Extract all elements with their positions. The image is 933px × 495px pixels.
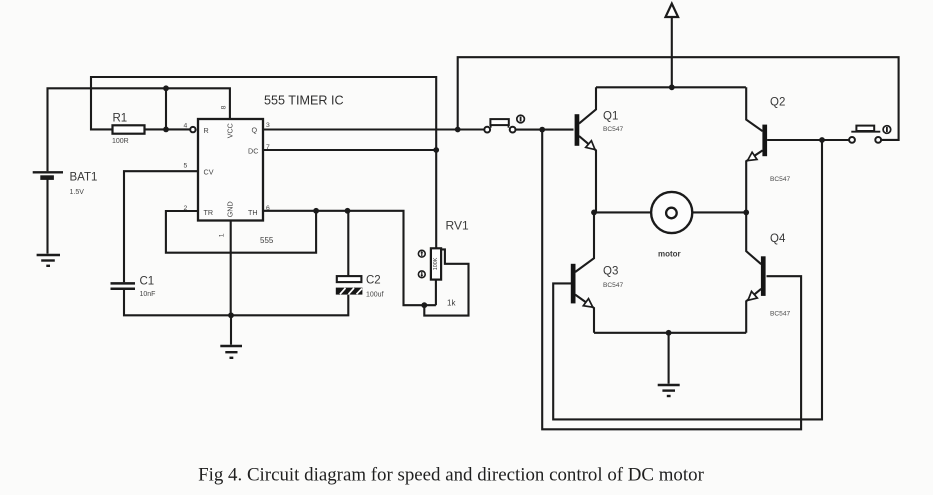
wire R1 left lead up and over to RV1 top xyxy=(91,77,436,249)
button S1 right terminal xyxy=(510,127,516,133)
pin label TH xyxy=(248,208,258,217)
svg-text:1: 1 xyxy=(219,233,226,237)
svg-text:Q: Q xyxy=(252,126,258,135)
svg-text:motor: motor xyxy=(658,250,681,259)
svg-text:RV1: RV1 xyxy=(446,219,469,233)
svg-text:BC547: BC547 xyxy=(770,176,790,183)
wire pin 7 DC to RV1 node xyxy=(263,149,436,151)
caption Fig 4 xyxy=(198,465,704,486)
svg-text:5: 5 xyxy=(184,163,188,170)
RV1 decrement control circle xyxy=(418,271,425,278)
svg-text:BC547: BC547 xyxy=(603,282,623,289)
pin number 7 xyxy=(266,144,270,151)
label Q4 xyxy=(770,233,786,245)
wire S1 node down and around to Q4 base xyxy=(542,130,801,430)
wire battery - to ground xyxy=(46,179,48,254)
label Q1 xyxy=(603,111,618,123)
power supply arrow xyxy=(666,4,679,88)
RV1 increment control circle xyxy=(418,250,425,257)
junction DC node on RV1 wire xyxy=(433,147,439,153)
label Q2 xyxy=(770,97,785,109)
wire pin 6 TH to RV1 bottom xyxy=(263,211,436,305)
value BC547 Q4 xyxy=(770,311,790,318)
junction Q output node xyxy=(455,127,461,133)
svg-text:100R: 100R xyxy=(112,138,129,145)
label motor xyxy=(658,250,681,259)
transistor Q2 xyxy=(746,87,767,212)
pin label DC xyxy=(248,147,258,156)
wire RV1 wiper loop to bottom node xyxy=(424,249,468,315)
ground under 555 xyxy=(220,315,242,358)
wire pin 3 Q output to button S1 xyxy=(263,128,484,130)
value BC547 Q3 xyxy=(603,282,623,289)
svg-text:1.5V: 1.5V xyxy=(70,189,85,196)
label 555 below box xyxy=(260,236,274,245)
button S2 cap xyxy=(851,126,880,132)
junction TH node at C2 xyxy=(345,208,351,214)
wire button S1 to Q1 base xyxy=(516,129,574,131)
pin label TR xyxy=(204,208,214,217)
pin number 2 xyxy=(184,205,188,212)
button S1 actuate symbol xyxy=(517,115,525,123)
svg-text:Q2: Q2 xyxy=(770,97,785,109)
svg-text:C2: C2 xyxy=(366,275,381,287)
value BC547 Q1 xyxy=(603,126,623,133)
svg-text:8: 8 xyxy=(221,105,228,109)
pin number 1 xyxy=(219,233,226,237)
svg-text:BAT1: BAT1 xyxy=(70,172,98,184)
capacitor C1 xyxy=(111,283,136,288)
value 1.5V xyxy=(70,189,85,196)
button S2 actuate symbol xyxy=(883,126,891,134)
svg-text:Fig 4. Circuit diagram for spe: Fig 4. Circuit diagram for speed and dir… xyxy=(198,465,704,486)
wire R1 right lead to pin 4 xyxy=(145,128,190,130)
battery BAT1 xyxy=(33,172,63,177)
potentiometer RV1 body xyxy=(431,248,441,279)
button S1 left terminal xyxy=(484,127,490,133)
svg-text:Q4: Q4 xyxy=(770,233,786,245)
wire Q3 Q4 emitter rail xyxy=(594,332,746,334)
wire C1 bottom along ground rail to C2 bottom xyxy=(124,290,348,315)
junction collector rail center xyxy=(669,84,675,90)
wire TH node down to C2 xyxy=(347,211,349,276)
svg-text:DC: DC xyxy=(248,147,258,156)
svg-text:TR: TR xyxy=(204,208,214,217)
button S1 cap xyxy=(490,119,508,128)
transistor Q3 xyxy=(571,212,594,332)
pin number 6 xyxy=(266,205,270,212)
junction emitter rail center xyxy=(666,330,672,336)
junction S1 output node xyxy=(539,127,545,133)
junction RV1 bottom node xyxy=(421,302,427,308)
junction Q1 Q3 node xyxy=(591,210,597,216)
label C2 xyxy=(366,275,381,287)
label Q3 xyxy=(603,266,618,278)
pin number 4 xyxy=(184,123,188,130)
svg-text:4: 4 xyxy=(184,123,188,130)
wire RV1 bottom lead xyxy=(435,280,437,306)
wire emitter rail to ground xyxy=(668,333,670,384)
label BAT1 xyxy=(70,172,98,184)
label R1 xyxy=(113,113,128,125)
wire supply branch to button S2 xyxy=(458,57,899,140)
transistor Q4 xyxy=(746,212,765,332)
pin label R xyxy=(204,126,209,135)
value 1k xyxy=(447,299,456,308)
ground under battery xyxy=(37,255,60,266)
button S2 left terminal xyxy=(849,137,855,143)
ground under bridge xyxy=(658,385,680,396)
transistor Q1 xyxy=(575,87,596,212)
pin 4 inversion bubble xyxy=(190,127,195,132)
svg-text:GND: GND xyxy=(226,201,235,217)
pin label CV xyxy=(204,167,214,176)
value 100uf xyxy=(366,292,384,299)
svg-text:Q1: Q1 xyxy=(603,111,618,123)
wire motor left to Q1 Q3 node xyxy=(594,211,651,213)
junction TR loop at TH wire xyxy=(313,208,319,214)
wire Q2 base to button S2 xyxy=(767,139,849,141)
svg-text:555: 555 xyxy=(260,236,274,245)
svg-text:BC547: BC547 xyxy=(770,311,790,318)
wire battery + up to supply rail xyxy=(48,88,230,171)
svg-text:R: R xyxy=(204,126,209,135)
junction ground rail xyxy=(228,312,234,318)
pin number 8 xyxy=(221,105,228,109)
wire pin 5 CV to C1 xyxy=(124,171,198,282)
wire junction down to R1 right node xyxy=(165,88,167,129)
svg-text:100K: 100K xyxy=(433,257,439,270)
svg-text:TH: TH xyxy=(248,208,258,217)
svg-text:100uf: 100uf xyxy=(366,292,384,299)
pin number 3 xyxy=(266,122,270,129)
value BC547 Q2 xyxy=(770,176,790,183)
pin number 5 xyxy=(184,163,188,170)
pin label VCC xyxy=(226,123,235,138)
svg-text:C1: C1 xyxy=(140,275,155,287)
value 10nF xyxy=(140,291,156,298)
op 555 timer IC U1 box xyxy=(198,119,263,221)
junction on supply rail xyxy=(163,85,169,91)
svg-text:CV: CV xyxy=(204,167,214,176)
capacitor C2 negative hatched plate xyxy=(336,288,363,295)
capacitor C2 positive plate xyxy=(337,276,362,282)
pin label GND xyxy=(226,201,235,217)
svg-text:1k: 1k xyxy=(447,299,456,308)
label 555 TIMER IC xyxy=(264,94,344,108)
svg-text:10nF: 10nF xyxy=(140,291,156,298)
resistor R1 xyxy=(113,125,145,133)
wire motor right to Q2 Q4 node xyxy=(692,211,746,213)
wire pin 2 TR loop to TH node xyxy=(166,211,316,253)
svg-text:3: 3 xyxy=(266,122,270,129)
pin label Q xyxy=(252,126,258,135)
value 100R xyxy=(112,138,129,145)
label RV1 xyxy=(446,219,469,233)
wire Q1 Q2 collector rail xyxy=(596,86,746,88)
svg-text:R1: R1 xyxy=(113,113,128,125)
junction at R1 right node xyxy=(163,126,169,132)
svg-text:555 TIMER IC: 555 TIMER IC xyxy=(264,94,344,108)
button S2 right terminal xyxy=(875,137,881,143)
motor M1 xyxy=(651,192,692,233)
wire pin 1 GND down to ground rail xyxy=(230,221,232,316)
svg-text:Q3: Q3 xyxy=(603,266,618,278)
svg-text:BC547: BC547 xyxy=(603,126,623,133)
wire S2 node down and around to Q3 base xyxy=(553,140,822,419)
label C1 xyxy=(140,275,155,287)
junction Q2 Q4 node xyxy=(743,210,749,216)
svg-text:VCC: VCC xyxy=(226,123,235,138)
junction S2 node xyxy=(819,137,825,143)
